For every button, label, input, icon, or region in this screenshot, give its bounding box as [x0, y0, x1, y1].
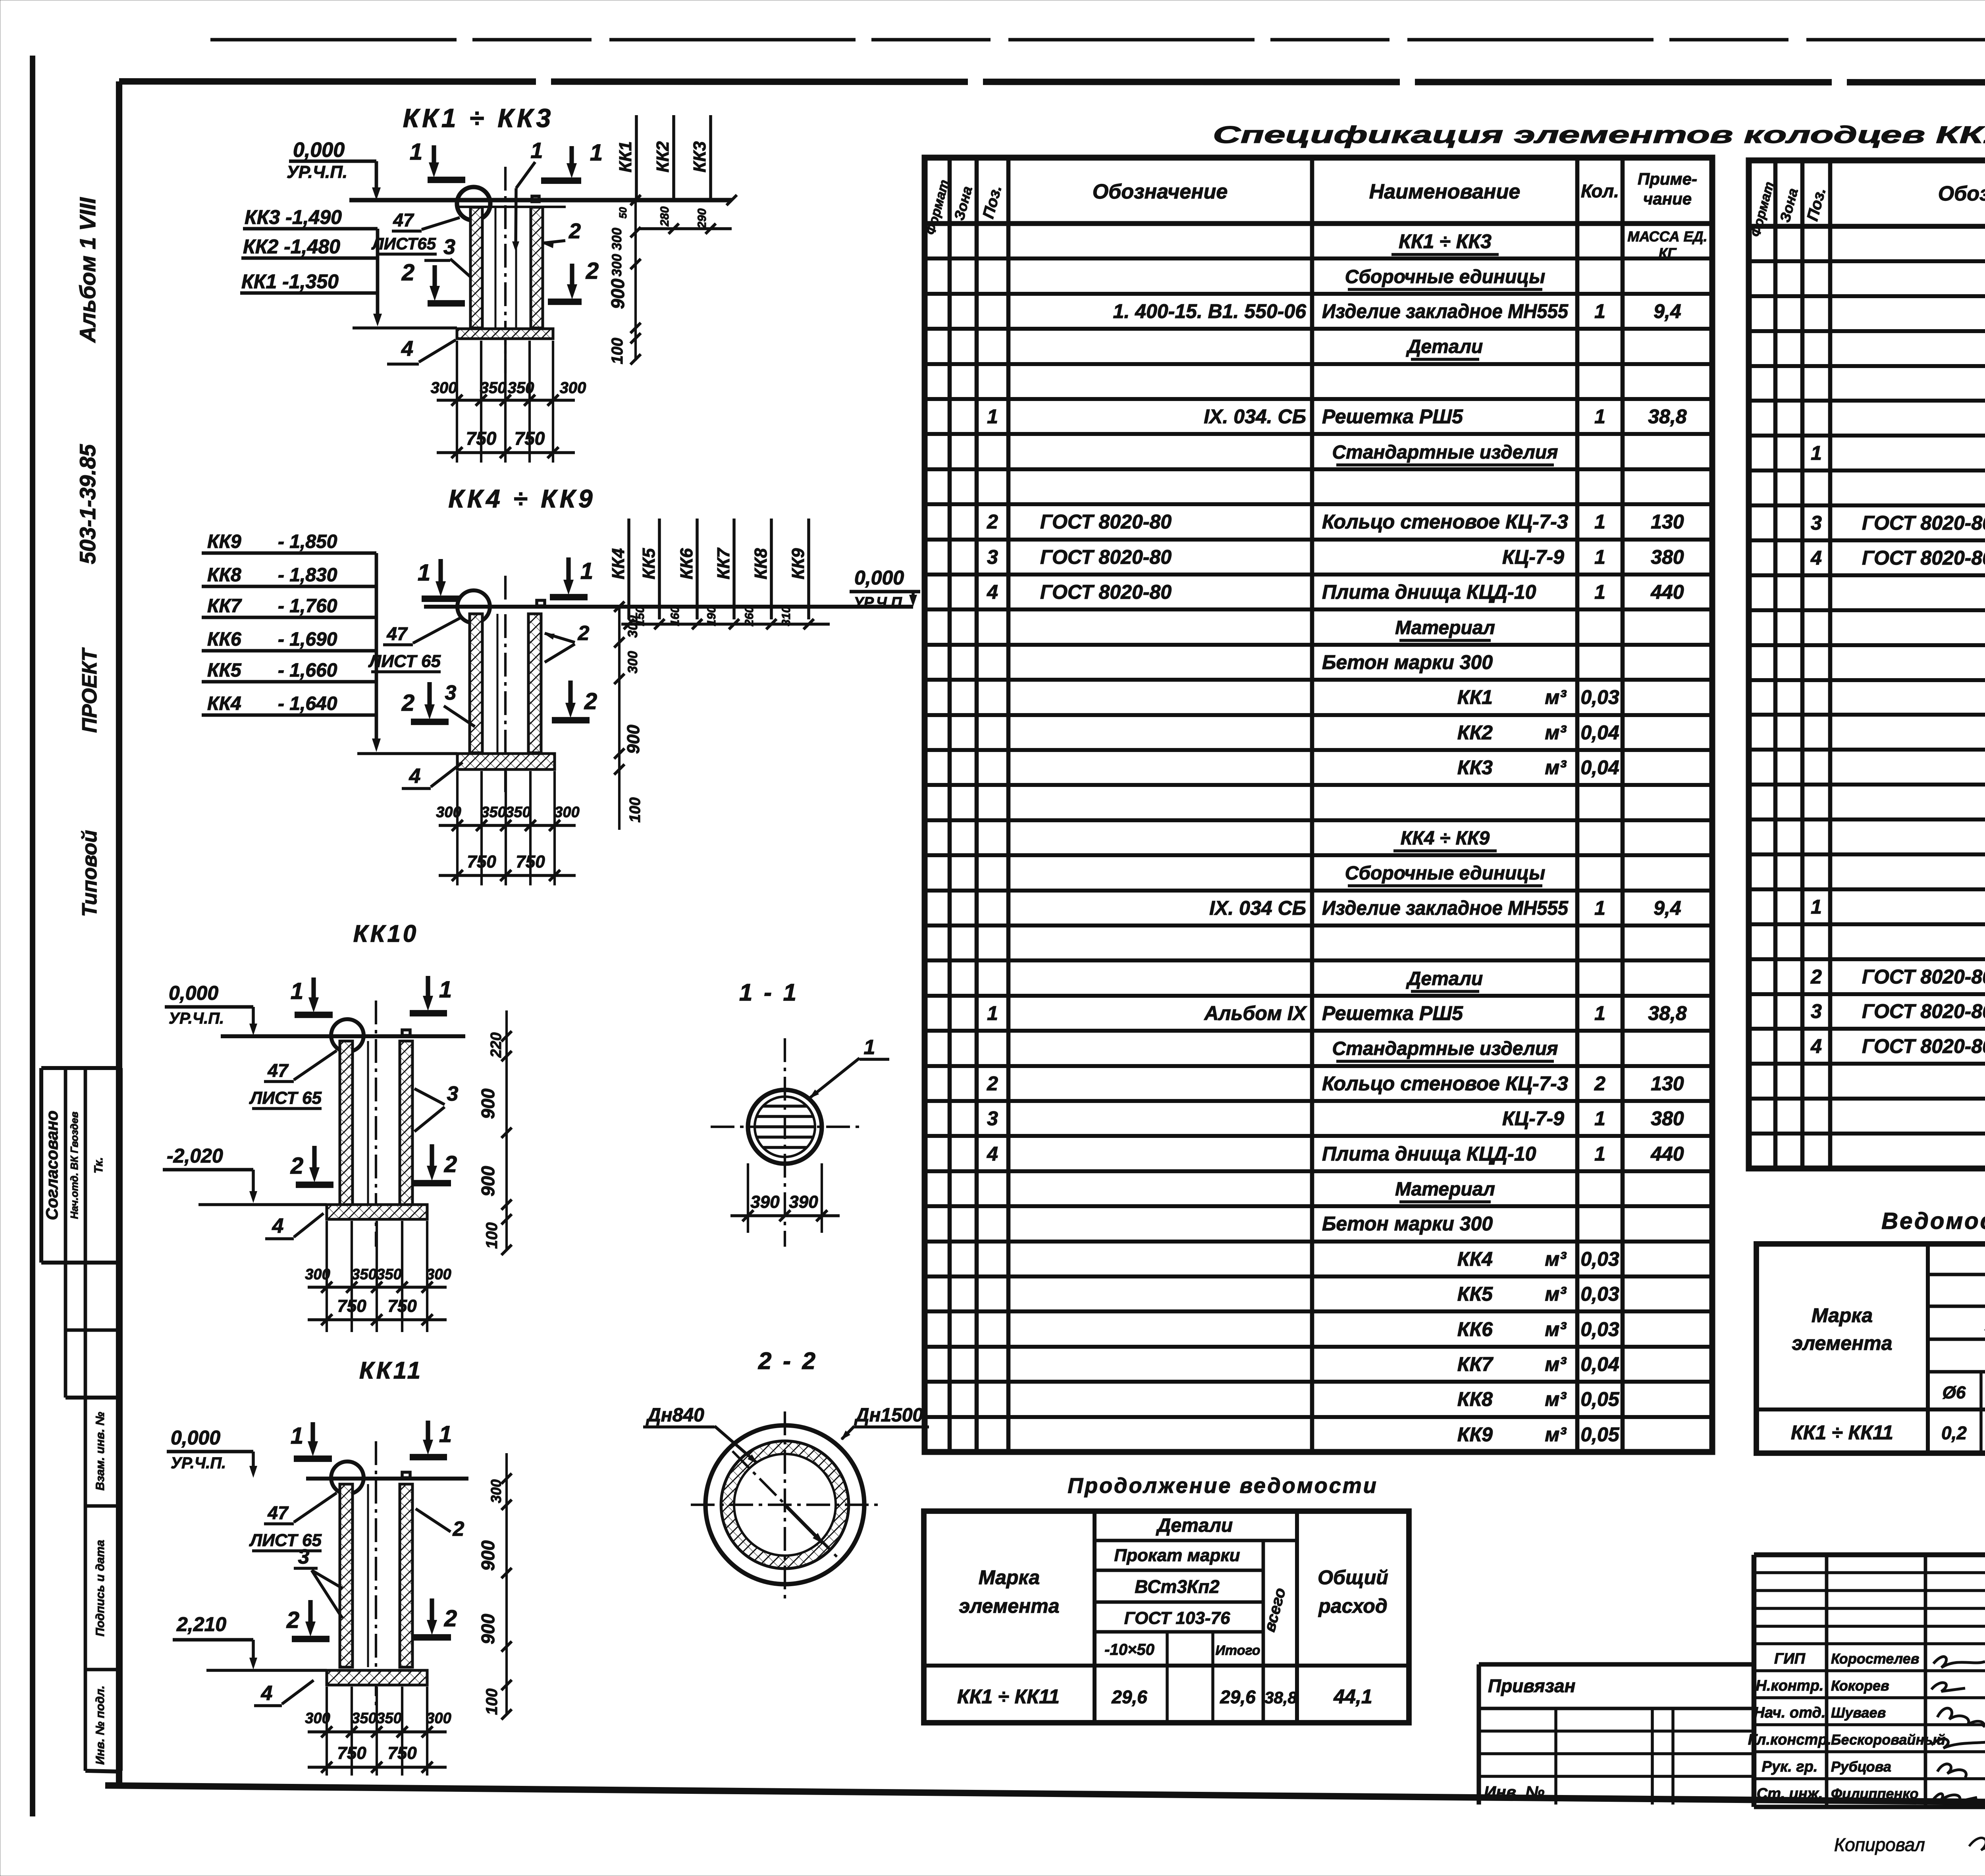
svg-text:29,6: 29,6	[1220, 1687, 1256, 1707]
svg-text:- 1,830: - 1,830	[278, 565, 337, 586]
svg-text:КЦ-7-9: КЦ-7-9	[1502, 1107, 1564, 1130]
svg-text:9,4: 9,4	[1654, 300, 1681, 322]
svg-text:ГОСТ 8020-80: ГОСТ 8020-80	[1862, 547, 1985, 569]
svg-text:ГОСТ 8020-80: ГОСТ 8020-80	[1862, 1000, 1985, 1022]
svg-text:КК1 ÷ КК11: КК1 ÷ КК11	[957, 1685, 1060, 1708]
svg-text:чание: чание	[1643, 189, 1692, 208]
svg-text:Гл.констр.: Гл.констр.	[1748, 1731, 1831, 1748]
svg-text:3: 3	[987, 546, 998, 568]
svg-text:130: 130	[1651, 1072, 1684, 1095]
svg-text:3: 3	[298, 1545, 310, 1568]
svg-text:Обозначение: Обозначение	[1938, 182, 1985, 205]
svg-text:КК4: КК4	[207, 693, 241, 714]
svg-text:2: 2	[987, 1072, 998, 1095]
svg-text:ГОСТ 8020-80: ГОСТ 8020-80	[1040, 546, 1172, 568]
svg-text:0,000: 0,000	[171, 1427, 220, 1449]
svg-text:2: 2	[286, 1607, 299, 1633]
svg-text:2: 2	[290, 1153, 303, 1179]
svg-text:1: 1	[590, 140, 603, 166]
svg-text:0,05: 0,05	[1580, 1388, 1620, 1410]
svg-text:IX. 034 СБ: IX. 034 СБ	[1209, 897, 1306, 919]
svg-text:КК1 ÷ КК3: КК1 ÷ КК3	[1399, 230, 1492, 253]
svg-text:280: 280	[658, 206, 671, 227]
svg-text:Дн840: Дн840	[646, 1405, 704, 1426]
svg-text:КК9: КК9	[788, 548, 808, 579]
svg-text:2: 2	[453, 1517, 464, 1541]
svg-text:Кокорев: Кокорев	[1831, 1677, 1889, 1694]
svg-text:КК4: КК4	[1457, 1248, 1493, 1270]
svg-text:Альбом 1 VIII: Альбом 1 VIII	[75, 197, 100, 343]
svg-text:440: 440	[1650, 1143, 1684, 1165]
svg-text:29,6: 29,6	[1111, 1687, 1147, 1707]
svg-text:1: 1	[987, 1002, 998, 1024]
svg-text:220: 220	[488, 1032, 505, 1058]
svg-text:м³: м³	[1545, 686, 1567, 708]
svg-text:Материал: Материал	[1395, 617, 1495, 638]
svg-text:ЛИСТ65: ЛИСТ65	[371, 234, 436, 253]
svg-text:0,000: 0,000	[169, 982, 218, 1004]
svg-text:4: 4	[272, 1215, 284, 1238]
svg-text:ГОСТ 103-76: ГОСТ 103-76	[1124, 1608, 1230, 1628]
right table rows	[1810, 234, 1985, 1127]
svg-text:КК1 ÷ КК11: КК1 ÷ КК11	[1791, 1421, 1893, 1444]
svg-text:300: 300	[488, 1479, 504, 1503]
svg-text:КК5: КК5	[207, 660, 242, 681]
svg-text:300: 300	[625, 615, 640, 638]
svg-text:ГОСТ 8020-80: ГОСТ 8020-80	[1862, 1035, 1985, 1057]
svg-text:1: 1	[418, 560, 430, 586]
svg-text:Ø6: Ø6	[1943, 1383, 1966, 1402]
svg-text:Согласовано: Согласовано	[42, 1111, 61, 1220]
svg-text:1: 1	[1594, 897, 1605, 919]
svg-text:2: 2	[444, 1606, 457, 1631]
svg-text:Детали: Детали	[1406, 336, 1483, 357]
well section КК4÷КК9	[202, 484, 920, 885]
attachment box (Привязан / Инв №)	[1479, 1664, 1754, 1805]
svg-text:2: 2	[569, 219, 581, 243]
svg-text:1: 1	[291, 978, 303, 1004]
svg-text:1 - 1: 1 - 1	[739, 979, 799, 1006]
svg-text:130: 130	[1651, 511, 1684, 533]
svg-text:ПРОЕКТ: ПРОЕКТ	[78, 647, 101, 733]
svg-text:750: 750	[337, 1296, 366, 1316]
svg-text:3: 3	[443, 235, 455, 259]
svg-text:9,4: 9,4	[1654, 897, 1681, 919]
svg-text:440: 440	[1650, 581, 1684, 603]
svg-text:100: 100	[483, 1222, 501, 1249]
svg-text:УР.Ч.П.: УР.Ч.П.	[287, 162, 347, 182]
svg-text:Филиппенко: Филиппенко	[1831, 1785, 1918, 1802]
svg-text:44,1: 44,1	[1333, 1685, 1372, 1708]
svg-text:м³: м³	[1545, 1318, 1567, 1340]
svg-text:2: 2	[578, 622, 590, 645]
svg-text:- 1,640: - 1,640	[278, 693, 337, 714]
svg-text:1: 1	[1594, 581, 1605, 603]
svg-text:1: 1	[1811, 896, 1822, 918]
svg-text:1: 1	[530, 138, 543, 163]
svg-text:КК9: КК9	[207, 531, 241, 552]
svg-text:4: 4	[987, 581, 998, 603]
svg-text:750: 750	[387, 1296, 417, 1316]
specification table right	[1748, 160, 1985, 1168]
svg-text:Наименование: Наименование	[1369, 180, 1521, 203]
svg-text:КК7: КК7	[1457, 1353, 1494, 1375]
svg-text:КК1 ÷ КК3: КК1 ÷ КК3	[403, 103, 554, 133]
svg-text:Шуваев: Шуваев	[1831, 1704, 1886, 1721]
svg-text:900: 900	[607, 278, 628, 309]
svg-text:Изделие закладное МН555: Изделие закладное МН555	[1322, 300, 1569, 322]
svg-text:Прокат марки: Прокат марки	[1114, 1546, 1240, 1565]
svg-text:м³: м³	[1545, 1388, 1567, 1410]
svg-text:- 1,690: - 1,690	[278, 629, 337, 650]
svg-text:Альбом IX: Альбом IX	[1203, 1002, 1307, 1024]
svg-text:-10×50: -10×50	[1104, 1641, 1154, 1658]
svg-text:2: 2	[1810, 966, 1822, 988]
svg-text:0,2: 0,2	[1941, 1423, 1967, 1443]
svg-text:Сборочные единицы: Сборочные единицы	[1345, 863, 1546, 884]
svg-text:КК3: КК3	[690, 141, 709, 173]
svg-text:1. 400-15. В1. 550-06: 1. 400-15. В1. 550-06	[1113, 300, 1307, 322]
svg-text:1: 1	[439, 1421, 452, 1447]
svg-text:Решетка РШ5: Решетка РШ5	[1322, 1002, 1463, 1024]
svg-text:900: 900	[478, 1088, 498, 1119]
svg-text:ЛИСТ 65: ЛИСТ 65	[249, 1531, 322, 1550]
svg-text:Подпись и дата: Подпись и дата	[94, 1540, 107, 1636]
svg-text:м³: м³	[1545, 1283, 1567, 1305]
svg-text:КК2: КК2	[1457, 721, 1493, 744]
svg-text:300: 300	[426, 1266, 451, 1283]
svg-text:0,03: 0,03	[1580, 1283, 1619, 1305]
svg-text:Кольцо стеновое КЦ-7-3: Кольцо стеновое КЦ-7-3	[1322, 511, 1568, 533]
svg-text:750: 750	[515, 428, 545, 449]
svg-text:47: 47	[386, 623, 408, 644]
svg-text:350: 350	[481, 804, 506, 821]
steel consumption table (Ведомость расхода стали)	[1756, 1208, 1985, 1453]
svg-text:МАССА ЕД.: МАССА ЕД.	[1627, 228, 1707, 245]
svg-text:КК8: КК8	[1457, 1388, 1493, 1410]
well section КК1÷КК3	[240, 103, 737, 463]
section view 1-1 (grate РШ5 plan)	[711, 979, 889, 1247]
svg-text:Кольцо стеновое КЦ-7-3: Кольцо стеновое КЦ-7-3	[1322, 1072, 1568, 1095]
svg-text:ЛИСТ 65: ЛИСТ 65	[249, 1088, 322, 1108]
svg-text:КК6: КК6	[207, 629, 241, 650]
svg-text:380: 380	[1651, 1107, 1684, 1130]
svg-text:IX. 034. СБ: IX. 034. СБ	[1204, 405, 1306, 428]
svg-text:ГИП: ГИП	[1774, 1650, 1806, 1667]
svg-text:КК6: КК6	[1457, 1318, 1493, 1340]
svg-text:100: 100	[627, 797, 644, 822]
svg-text:- 1,660: - 1,660	[278, 660, 337, 681]
svg-text:КК7: КК7	[207, 596, 242, 617]
svg-text:900: 900	[478, 1166, 498, 1196]
svg-text:1: 1	[1594, 405, 1605, 428]
svg-text:КК7: КК7	[714, 547, 733, 579]
svg-text:КК2: КК2	[653, 141, 673, 172]
svg-text:2: 2	[1594, 1072, 1605, 1095]
svg-text:0,000: 0,000	[854, 567, 904, 589]
svg-text:Дн1500: Дн1500	[854, 1405, 923, 1426]
svg-text:Плита днища КЦД-10: Плита днища КЦД-10	[1322, 1143, 1536, 1165]
svg-text:элемента: элемента	[959, 1595, 1059, 1617]
svg-text:Марка: Марка	[979, 1566, 1040, 1589]
svg-text:Н.контр.: Н.контр.	[1756, 1677, 1824, 1694]
svg-text:1: 1	[1594, 511, 1605, 533]
svg-text:300: 300	[305, 1266, 330, 1283]
svg-text:Стандартные изделия: Стандартные изделия	[1332, 442, 1558, 463]
specification table left	[923, 158, 1712, 1452]
svg-text:КК5: КК5	[639, 548, 659, 579]
svg-text:2: 2	[584, 688, 597, 714]
svg-text:Коростелев: Коростелев	[1831, 1650, 1919, 1667]
svg-text:38,8: 38,8	[1648, 405, 1687, 428]
svg-text:380: 380	[1651, 546, 1684, 568]
svg-text:УР.Ч.П.: УР.Ч.П.	[854, 594, 906, 611]
svg-text:300: 300	[554, 804, 579, 821]
svg-text:38,8: 38,8	[1264, 1688, 1297, 1707]
sidebar approval stamp boxes	[41, 1068, 121, 1772]
svg-text:КК3: КК3	[1457, 756, 1493, 779]
svg-text:м³: м³	[1545, 721, 1567, 744]
footer annotations	[1834, 1830, 1985, 1855]
svg-text:Итого: Итого	[1215, 1643, 1260, 1658]
svg-text:1: 1	[580, 558, 593, 584]
svg-text:260: 260	[743, 606, 756, 627]
svg-text:350: 350	[505, 804, 530, 821]
svg-text:300: 300	[560, 379, 586, 397]
svg-text:Бескоровайный: Бескоровайный	[1831, 1731, 1945, 1748]
svg-text:ГОСТ 8020-80: ГОСТ 8020-80	[1862, 512, 1985, 534]
svg-text:0,04: 0,04	[1580, 1353, 1619, 1375]
svg-text:160: 160	[669, 606, 682, 626]
svg-text:4: 4	[1810, 1035, 1822, 1057]
svg-text:м³: м³	[1545, 1423, 1567, 1446]
svg-text:3: 3	[445, 681, 457, 704]
svg-text:350: 350	[508, 379, 534, 397]
svg-text:4: 4	[261, 1682, 273, 1705]
svg-text:- 1,760: - 1,760	[278, 596, 337, 617]
svg-text:Ведомость расхода стали на: Ведомость расхода стали на элемент, кг	[1881, 1208, 1985, 1234]
svg-text:Изделие закладное МН555: Изделие закладное МН555	[1322, 897, 1569, 919]
svg-text:1: 1	[291, 1423, 303, 1449]
svg-text:Типовой: Типовой	[78, 830, 101, 917]
svg-text:300: 300	[609, 254, 624, 277]
svg-text:КК11: КК11	[359, 1357, 423, 1384]
svg-text:350: 350	[376, 1710, 401, 1727]
svg-text:300: 300	[431, 379, 457, 397]
svg-text:0,04: 0,04	[1580, 756, 1619, 779]
svg-text:750: 750	[516, 852, 545, 871]
svg-text:УР.Ч.П.: УР.Ч.П.	[169, 1010, 224, 1027]
svg-text:КК10: КК10	[353, 920, 419, 947]
svg-text:2: 2	[987, 511, 998, 533]
svg-text:Привязан: Привязан	[1488, 1675, 1575, 1696]
svg-text:Инв. №: Инв. №	[1484, 1783, 1544, 1801]
svg-text:КК6: КК6	[677, 548, 696, 579]
svg-text:1: 1	[1594, 300, 1605, 322]
svg-text:300: 300	[426, 1710, 451, 1727]
svg-text:м³: м³	[1545, 1353, 1567, 1375]
svg-text:3: 3	[1811, 1000, 1822, 1022]
svg-text:м³: м³	[1545, 1248, 1567, 1270]
svg-text:КК8: КК8	[751, 548, 771, 579]
svg-text:Спецификация элементов: Спецификация элементов колодцев КК1 ÷ КК…	[1213, 121, 1985, 148]
svg-text:0,000: 0,000	[293, 139, 345, 162]
svg-text:1: 1	[1811, 442, 1822, 464]
svg-text:350: 350	[480, 379, 507, 397]
svg-text:Кол.: Кол.	[1581, 181, 1619, 201]
svg-text:КК4: КК4	[609, 548, 628, 580]
svg-text:КГ: КГ	[1659, 245, 1677, 261]
svg-text:2,210: 2,210	[176, 1613, 226, 1635]
svg-text:1: 1	[1594, 546, 1605, 568]
svg-text:ГОСТ 8020-80: ГОСТ 8020-80	[1040, 581, 1172, 603]
svg-text:Общий: Общий	[1318, 1566, 1388, 1589]
svg-text:Детали: Детали	[1156, 1515, 1233, 1536]
svg-text:47: 47	[393, 210, 414, 230]
svg-text:290: 290	[696, 208, 709, 229]
svg-text:300: 300	[305, 1710, 330, 1727]
svg-text:Продолжение ведомости: Продолжение ведомости	[1068, 1474, 1378, 1498]
svg-text:КК1 -1,350: КК1 -1,350	[241, 270, 339, 293]
svg-text:Ст. инж.: Ст. инж.	[1757, 1785, 1823, 1802]
svg-text:2: 2	[444, 1151, 457, 1177]
svg-text:2: 2	[401, 260, 414, 285]
svg-text:1: 1	[1594, 1143, 1605, 1165]
svg-text:4: 4	[1810, 547, 1822, 569]
left table rows	[987, 228, 1707, 1446]
svg-text:расход: расход	[1318, 1595, 1388, 1617]
svg-text:2: 2	[401, 690, 414, 716]
svg-text:750: 750	[387, 1743, 417, 1763]
svg-text:Нач.отд. ВК Гвоздев: Нач.отд. ВК Гвоздев	[68, 1111, 80, 1219]
svg-text:Марка: Марка	[1812, 1304, 1873, 1327]
section view 2-2 (well rings plan)	[643, 1348, 929, 1600]
svg-text:900: 900	[478, 1614, 498, 1644]
svg-text:190: 190	[705, 606, 718, 626]
svg-text:1: 1	[1594, 1107, 1605, 1130]
svg-text:4: 4	[987, 1143, 998, 1165]
svg-text:м³: м³	[1545, 756, 1567, 779]
svg-text:КК4 ÷ КК9: КК4 ÷ КК9	[1401, 828, 1490, 849]
continuation table (Продолжение ведомости)	[924, 1474, 1409, 1723]
svg-text:Копировал: Копировал	[1834, 1834, 1925, 1855]
svg-text:КК1: КК1	[1457, 686, 1493, 708]
svg-text:УР.Ч.П.: УР.Ч.П.	[171, 1454, 226, 1472]
svg-text:ГОСТ 8020-80: ГОСТ 8020-80	[1862, 966, 1985, 988]
svg-text:47: 47	[267, 1502, 289, 1523]
svg-text:элемента: элемента	[1792, 1332, 1892, 1354]
svg-text:4: 4	[409, 765, 421, 788]
svg-text:Сборочные единицы: Сборочные единицы	[1345, 266, 1546, 287]
svg-text:3: 3	[1811, 512, 1822, 534]
svg-text:Приме-: Приме-	[1638, 170, 1697, 188]
well section КК11	[167, 1357, 512, 1776]
svg-text:Материал: Материал	[1395, 1179, 1495, 1200]
svg-text:38,8: 38,8	[1648, 1002, 1687, 1024]
svg-text:300: 300	[436, 804, 461, 821]
svg-text:100: 100	[609, 338, 626, 364]
svg-text:750: 750	[467, 852, 496, 871]
svg-text:503-1-39.85: 503-1-39.85	[75, 444, 100, 564]
svg-text:Инв. № подл.: Инв. № подл.	[94, 1685, 107, 1764]
svg-text:Обозначение: Обозначение	[1093, 180, 1228, 203]
svg-text:2: 2	[586, 258, 599, 284]
svg-text:390: 390	[750, 1192, 780, 1212]
svg-text:1: 1	[987, 405, 998, 428]
svg-text:390: 390	[789, 1192, 818, 1212]
svg-text:КК8: КК8	[207, 565, 241, 586]
svg-text:3: 3	[987, 1107, 998, 1130]
svg-text:Рубцова: Рубцова	[1831, 1758, 1891, 1775]
svg-text:4: 4	[401, 337, 413, 361]
svg-text:2 - 2: 2 - 2	[758, 1348, 818, 1374]
svg-text:1: 1	[439, 977, 452, 1003]
svg-text:ЛИСТ 65: ЛИСТ 65	[368, 652, 441, 671]
svg-text:Рук. гр.: Рук. гр.	[1762, 1758, 1818, 1775]
svg-text:КК5: КК5	[1457, 1283, 1493, 1305]
svg-text:0,04: 0,04	[1580, 721, 1619, 744]
svg-text:300: 300	[609, 228, 624, 251]
svg-text:100: 100	[483, 1689, 501, 1715]
svg-text:0,03: 0,03	[1580, 1248, 1619, 1270]
svg-text:КЦ-7-9: КЦ-7-9	[1502, 546, 1564, 568]
title block	[1748, 1555, 1985, 1807]
svg-text:1: 1	[410, 139, 422, 165]
svg-text:50: 50	[617, 207, 629, 218]
svg-text:ГОСТ 8020-80: ГОСТ 8020-80	[1040, 511, 1172, 533]
svg-text:900: 900	[478, 1540, 498, 1571]
well section КК10	[163, 920, 512, 1332]
svg-text:КК1: КК1	[616, 141, 635, 173]
svg-text:Взам. инв. №: Взам. инв. №	[94, 1412, 107, 1490]
svg-text:0,03: 0,03	[1580, 686, 1619, 708]
svg-text:Бетон марки 300: Бетон марки 300	[1322, 1213, 1493, 1235]
svg-text:350: 350	[351, 1710, 376, 1727]
svg-text:Тк.: Тк.	[92, 1157, 105, 1173]
svg-text:Решетка РШ5: Решетка РШ5	[1322, 405, 1463, 428]
svg-text:0,05: 0,05	[1580, 1423, 1620, 1446]
svg-text:Плита днища КЦД-10: Плита днища КЦД-10	[1322, 581, 1536, 603]
svg-text:350: 350	[376, 1266, 401, 1283]
svg-text:750: 750	[466, 428, 497, 449]
svg-text:-2,020: -2,020	[167, 1145, 223, 1167]
svg-text:Нач. отд.: Нач. отд.	[1754, 1704, 1826, 1721]
svg-text:ВСт3Кп2: ВСт3Кп2	[1135, 1576, 1220, 1597]
svg-text:3: 3	[447, 1082, 459, 1105]
svg-text:47: 47	[267, 1060, 289, 1081]
svg-text:1: 1	[864, 1036, 875, 1059]
svg-text:- 1,850: - 1,850	[278, 531, 337, 552]
svg-text:300: 300	[625, 651, 640, 674]
svg-text:350: 350	[351, 1266, 376, 1283]
svg-text:310: 310	[780, 606, 793, 626]
svg-text:КК3 -1,490: КК3 -1,490	[245, 206, 342, 228]
svg-text:КК2 -1,480: КК2 -1,480	[243, 235, 340, 258]
svg-text:Детали: Детали	[1406, 968, 1483, 989]
svg-text:Стандартные изделия: Стандартные изделия	[1332, 1038, 1558, 1059]
svg-text:1: 1	[1594, 1002, 1605, 1024]
svg-text:КК9: КК9	[1457, 1423, 1493, 1446]
svg-text:750: 750	[337, 1743, 366, 1763]
svg-text:КК4 ÷ КК9: КК4 ÷ КК9	[448, 484, 595, 513]
svg-text:Бетон марки 300: Бетон марки 300	[1322, 651, 1493, 673]
svg-text:900: 900	[624, 725, 643, 754]
svg-text:0,03: 0,03	[1580, 1318, 1619, 1340]
